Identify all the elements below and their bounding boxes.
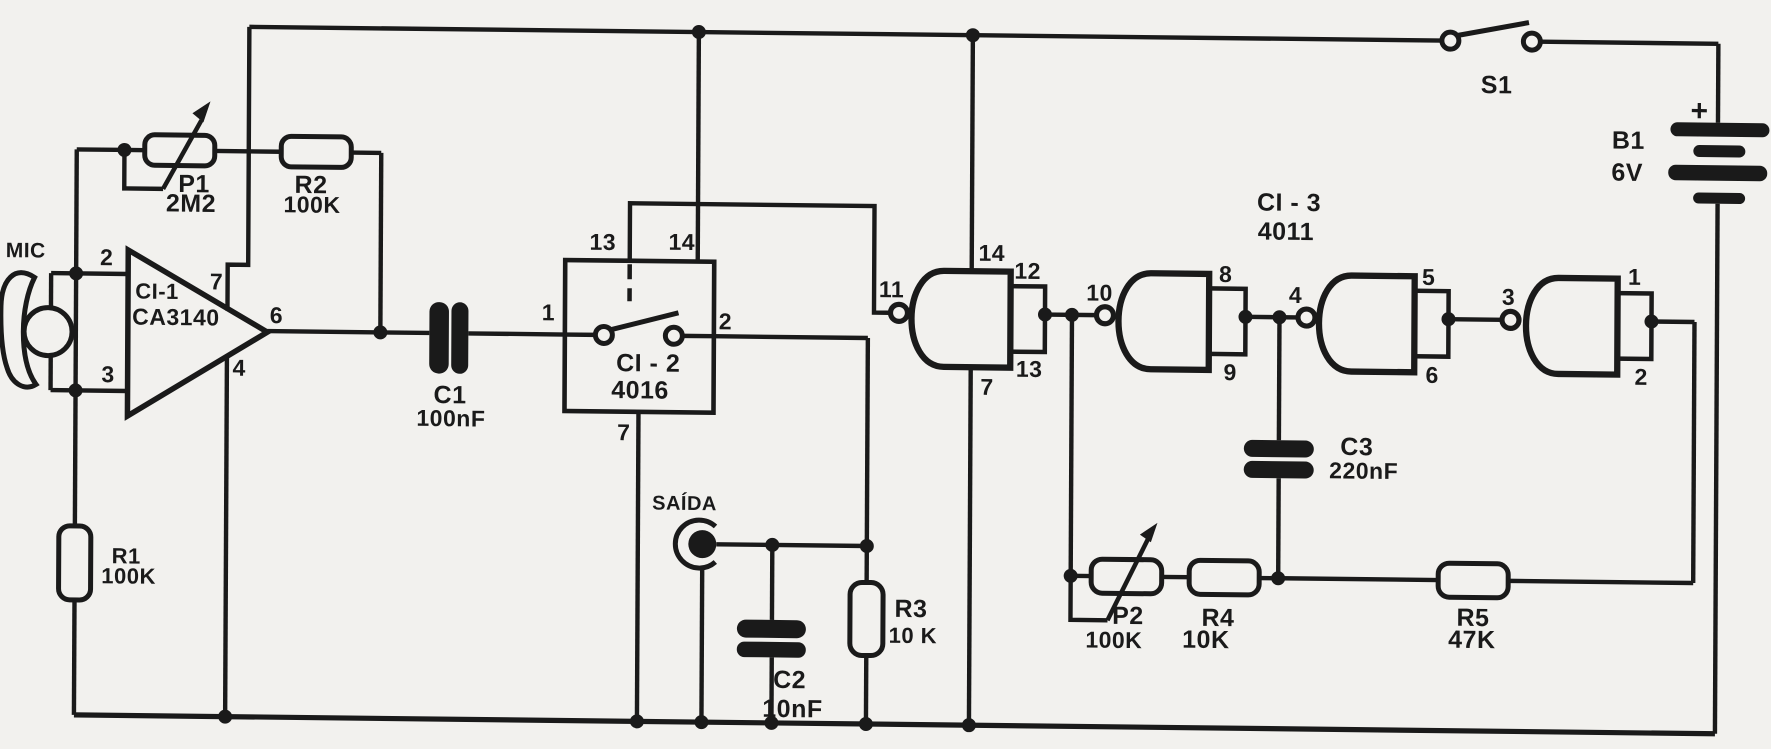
svg-text:14: 14 xyxy=(978,240,1005,266)
svg-text:220nF: 220nF xyxy=(1329,457,1398,484)
svg-text:CI-1: CI-1 xyxy=(135,279,179,304)
svg-text:S1: S1 xyxy=(1481,71,1513,99)
svg-text:10K: 10K xyxy=(1182,626,1230,655)
svg-text:2M2: 2M2 xyxy=(166,189,216,218)
svg-text:10nF: 10nF xyxy=(762,695,822,724)
svg-text:100K: 100K xyxy=(1085,627,1142,654)
svg-text:3: 3 xyxy=(1502,284,1515,310)
svg-text:3: 3 xyxy=(101,361,114,387)
svg-text:R3: R3 xyxy=(894,595,927,623)
svg-text:100nF: 100nF xyxy=(416,405,485,432)
svg-text:10 K: 10 K xyxy=(889,623,938,649)
svg-text:13: 13 xyxy=(589,229,616,255)
svg-text:47K: 47K xyxy=(1448,626,1496,655)
svg-text:4011: 4011 xyxy=(1258,217,1314,246)
svg-text:SAÍDA: SAÍDA xyxy=(652,492,717,516)
svg-text:MIC: MIC xyxy=(6,239,46,262)
svg-text:2: 2 xyxy=(1634,364,1647,390)
svg-text:9: 9 xyxy=(1223,359,1236,385)
svg-text:8: 8 xyxy=(1219,261,1232,287)
svg-text:6: 6 xyxy=(270,302,283,328)
svg-text:4016: 4016 xyxy=(611,376,669,405)
svg-text:100K: 100K xyxy=(101,563,156,589)
svg-text:14: 14 xyxy=(668,229,695,255)
svg-text:6: 6 xyxy=(1425,362,1438,388)
svg-text:2: 2 xyxy=(719,308,732,334)
svg-text:7: 7 xyxy=(210,268,223,294)
svg-text:CA3140: CA3140 xyxy=(132,304,220,331)
svg-text:4: 4 xyxy=(1289,282,1302,308)
svg-text:2: 2 xyxy=(100,244,113,270)
svg-text:C2: C2 xyxy=(773,666,806,694)
svg-text:+: + xyxy=(1690,94,1708,127)
svg-text:100K: 100K xyxy=(283,191,340,218)
svg-text:6V: 6V xyxy=(1611,159,1643,187)
svg-text:7: 7 xyxy=(617,419,630,445)
svg-text:12: 12 xyxy=(1014,258,1041,284)
svg-text:11: 11 xyxy=(879,276,904,302)
svg-text:4: 4 xyxy=(232,355,245,381)
svg-text:CI - 2: CI - 2 xyxy=(616,349,680,378)
svg-text:B1: B1 xyxy=(1612,127,1645,155)
svg-text:1: 1 xyxy=(1628,264,1641,290)
svg-text:1: 1 xyxy=(542,299,555,325)
svg-text:CI - 3: CI - 3 xyxy=(1257,188,1321,217)
svg-text:13: 13 xyxy=(1016,356,1043,382)
svg-text:7: 7 xyxy=(980,374,993,400)
svg-text:5: 5 xyxy=(1422,264,1435,290)
svg-text:10: 10 xyxy=(1086,280,1113,306)
